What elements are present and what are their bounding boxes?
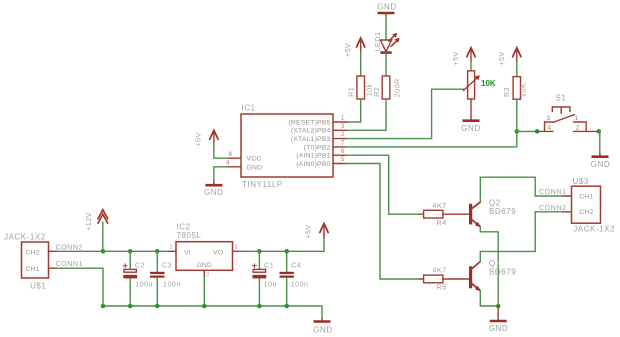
svg-text:CONN1: CONN1 (56, 259, 83, 268)
svg-text:GND: GND (313, 325, 332, 334)
svg-text:GND: GND (461, 124, 480, 133)
svg-text:4K7: 4K7 (432, 201, 446, 210)
wire C2 bottom (129, 278, 131, 306)
svg-text:+12V: +12V (84, 212, 93, 231)
svg-text:CONN2: CONN2 (56, 242, 83, 251)
pin 3 stub IC1 (333, 124, 347, 130)
svg-text:R1: R1 (346, 87, 355, 97)
svg-text:10u: 10u (264, 279, 277, 288)
svg-text:(AIN0)PB0: (AIN0)PB0 (296, 161, 330, 168)
wire Q2 collector to U$3 CONN1 (480, 177, 562, 202)
ground GND top of LED1 (377, 3, 396, 18)
wire C1 bottom (258, 278, 260, 306)
junction rail IC2 GND (202, 304, 207, 309)
connector U$3 JACK-1X2 (572, 177, 616, 234)
svg-text:VCC: VCC (247, 156, 262, 163)
junction C2 top (128, 249, 133, 254)
wire +5V to R1 (360, 52, 362, 76)
wire C2 top (129, 251, 131, 269)
transistor Q2 BD679 (469, 198, 516, 227)
svg-text:C2: C2 (135, 260, 145, 269)
svg-text:JACK-1X2: JACK-1X2 (573, 225, 615, 234)
wire C3 top (156, 251, 158, 271)
wire node to S1 pin 4 (517, 130, 539, 132)
svg-text:+5V: +5V (194, 132, 203, 146)
svg-text:4K7: 4K7 (432, 266, 446, 275)
svg-text:C3: C3 (162, 260, 172, 269)
svg-text:GND: GND (591, 160, 610, 169)
pin 4 stub IC1 GND (226, 161, 241, 167)
wire R3 to S1 node (516, 99, 518, 131)
wire C4 top (286, 251, 288, 271)
wire IC2 GND to rail (203, 277, 205, 306)
wire R2 to IC1 pin 3 (347, 99, 387, 130)
switch S1 (537, 93, 599, 131)
voltage regulator IC2 7805L (176, 223, 233, 271)
svg-text:IC1: IC1 (242, 104, 256, 113)
svg-text:(T0)PB2: (T0)PB2 (304, 144, 331, 151)
wire +5V to VCC pin 8 (214, 144, 227, 158)
svg-text:GND: GND (377, 3, 396, 12)
svg-text:+5V: +5V (343, 43, 352, 57)
op-amp box IC1 TINY11LP (241, 104, 333, 190)
junction rail C3 (155, 304, 160, 309)
svg-text:GND: GND (247, 164, 263, 171)
svg-text:R4: R4 (436, 218, 446, 227)
svg-text:100n: 100n (163, 279, 181, 288)
pin 8 stub IC1 VCC (227, 152, 241, 158)
pin GND stub IC2 (204, 270, 209, 278)
svg-text:100n: 100n (291, 279, 309, 288)
pin 5 stub IC1 (333, 157, 347, 163)
supply +5V at regulator output (304, 224, 329, 239)
wire S1 pin 2 to GND (599, 131, 600, 155)
svg-text:+5V: +5V (304, 224, 313, 238)
svg-text:(XTAL2)PB4: (XTAL2)PB4 (291, 128, 331, 135)
svg-text:C1: C1 (264, 260, 274, 269)
capacitor C4 100n (280, 260, 309, 288)
connector U$1 JACK-1X2 (4, 233, 49, 291)
junction +12V CONN2 (101, 249, 106, 254)
svg-text:R2: R2 (372, 87, 381, 97)
LED D1 LED1 (373, 32, 400, 53)
svg-text:R3: R3 (502, 87, 511, 97)
supply +5V above R3 (497, 48, 521, 66)
svg-text:7805L: 7805L (177, 231, 202, 240)
junction rail at CONN1 (101, 304, 106, 309)
pin 2 stub IC1 (333, 132, 347, 138)
junction rail C2 (128, 304, 133, 309)
junction R3 S1 pin7 (515, 129, 520, 134)
pin CH1 stub U$1 (49, 267, 58, 269)
svg-text:VI: VI (184, 249, 191, 256)
svg-text:(AIN1)PB1: (AIN1)PB1 (296, 153, 330, 160)
junction rail C4 (284, 304, 289, 309)
wire +12V to CONN2 net (102, 222, 104, 251)
pin 1 stub IC1 (333, 116, 347, 122)
resistor R4 4K7 (420, 201, 470, 227)
svg-text:BD679: BD679 (489, 268, 516, 277)
wire ground rail (103, 306, 322, 320)
svg-text:10k: 10k (364, 83, 373, 96)
ground GND at rail (313, 319, 332, 335)
wire +5V to trimmer (470, 62, 472, 71)
ground GND at Q1 (489, 306, 508, 333)
svg-text:CONN2: CONN2 (539, 203, 566, 212)
svg-text:TINY11LP: TINY11LP (242, 180, 283, 189)
junction C1 top (257, 249, 262, 254)
svg-text:1: 1 (170, 245, 173, 251)
svg-text:JACK-1X2: JACK-1X2 (4, 233, 46, 242)
wire Q1 emitter to GND junction (480, 290, 498, 306)
resistor R1 10k (346, 76, 373, 99)
transistor Q1 BD679 (469, 259, 516, 291)
svg-text:+5V: +5V (451, 51, 460, 65)
svg-text:VO: VO (213, 249, 223, 256)
svg-text:10K: 10K (481, 79, 496, 88)
svg-text:LED1: LED1 (373, 32, 382, 52)
wire IC1 pin 6 to R4 (347, 155, 420, 214)
pin 6 stub IC1 (333, 149, 347, 155)
svg-text:+5V: +5V (497, 51, 506, 65)
junction rail C1 (257, 304, 262, 309)
junction Q1 Q2 emitters (496, 304, 501, 309)
svg-text:2: 2 (207, 273, 210, 279)
wire CONN1 net to ground rail (57, 268, 103, 306)
wire Q1 collector to CONN2 (480, 212, 562, 262)
svg-text:3: 3 (235, 245, 238, 251)
wire C1 top (258, 251, 260, 269)
capacitor C2 100u (123, 260, 153, 288)
pin 7 stub IC1 (333, 141, 347, 147)
supply +5V above R1 (343, 38, 365, 57)
svg-text:GND: GND (196, 262, 212, 269)
wire CONN2 net to 7805 VI (57, 250, 168, 252)
capacitor C1 10u (252, 260, 277, 288)
trimmer potentiometer 10K (464, 71, 496, 99)
svg-text:U$3: U$3 (573, 177, 589, 186)
resistor R3 10K (502, 77, 527, 100)
junction at S1 pin 4 (535, 129, 540, 134)
svg-text:C4: C4 (291, 260, 301, 269)
pin VO stub IC2 (233, 245, 242, 252)
junction S1 right to GND (597, 129, 602, 134)
wire GND to LED1 anode (385, 17, 387, 40)
wire Q2 emitter to GND junction (480, 226, 498, 306)
svg-text:BD679: BD679 (489, 207, 516, 216)
junction C3 top (155, 249, 160, 254)
svg-text:GND: GND (489, 324, 508, 333)
wire +5V to R3 (516, 62, 518, 77)
svg-text:CH2: CH2 (579, 209, 593, 216)
junction C4 top (284, 249, 289, 254)
pin VI stub IC2 (168, 245, 176, 252)
wire IC1 pin 5 to R5 (347, 164, 420, 280)
wire C4 bottom (286, 278, 288, 306)
svg-text:CH1: CH1 (26, 266, 40, 273)
wire VO to +5V (241, 234, 324, 251)
wire IC1 pin 7 to S1 (347, 131, 517, 147)
svg-text:(RESET)PB5: (RESET)PB5 (288, 119, 330, 126)
svg-text:U$1: U$1 (30, 282, 46, 291)
ground GND at IC1 (204, 182, 223, 197)
svg-text:CH1: CH1 (579, 193, 593, 200)
svg-text:R5: R5 (436, 282, 446, 291)
svg-text:100u: 100u (135, 279, 153, 288)
pin CH1 stub U$3 (563, 195, 572, 197)
resistor R5 4K7 (420, 266, 470, 292)
wire R1 to IC1 pin 1 (347, 99, 361, 122)
wire C3 bottom (156, 278, 158, 306)
supply +5V above trimmer (451, 48, 475, 66)
svg-text:(XTAL1)PB3: (XTAL1)PB3 (291, 136, 331, 143)
svg-text:CH2: CH2 (26, 250, 40, 257)
supply +12V (84, 210, 107, 231)
wire LED1 cathode to R2 (385, 53, 387, 76)
ground GND at S1 (591, 154, 610, 170)
svg-text:200R: 200R (393, 78, 402, 97)
svg-text:CONN1: CONN1 (539, 187, 566, 196)
pin CH2 stub U$1 (49, 250, 58, 252)
ground GND below trimmer (461, 99, 480, 133)
pin CH2 stub U$3 (563, 211, 572, 213)
wire IC1 pin 2 to trimmer wiper (347, 89, 464, 138)
svg-text:10K: 10K (518, 83, 527, 97)
wire GND pin 4 (214, 167, 227, 184)
svg-text:S1: S1 (556, 93, 567, 102)
svg-text:GND: GND (204, 188, 223, 197)
supply +5V at IC1 VCC (194, 130, 218, 146)
resistor R2 200R (372, 76, 401, 99)
capacitor C3 100n (150, 260, 181, 288)
